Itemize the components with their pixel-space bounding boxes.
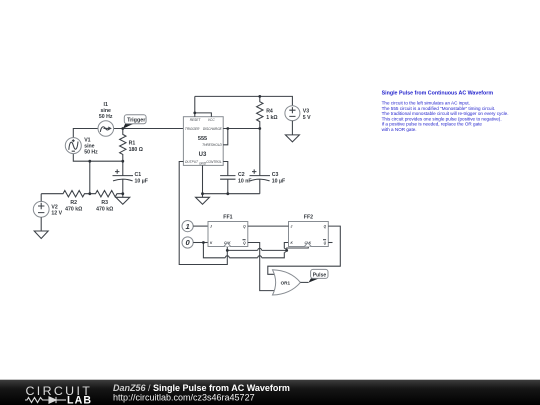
wire FF2 Q to OR input 1 xyxy=(268,226,341,274)
wire CONTROL to C2 xyxy=(223,162,228,176)
note text block xyxy=(382,90,509,132)
node trigger xyxy=(121,127,124,130)
wire K line B to FF2 K xyxy=(203,243,288,258)
svg-text:FF2: FF2 xyxy=(304,215,313,221)
capacitor C3 xyxy=(250,176,271,194)
current source I1 xyxy=(98,121,114,137)
node threshold xyxy=(226,127,229,130)
wire OR output xyxy=(300,281,308,283)
svg-text:555: 555 xyxy=(198,136,207,142)
svg-text:CONTROL: CONTROL xyxy=(206,160,222,164)
svg-text:12 V: 12 V xyxy=(51,211,62,217)
svg-text:470 kΩ: 470 kΩ xyxy=(65,206,82,212)
node CLK FF2 xyxy=(285,249,288,252)
wire V1 top to I1 left xyxy=(73,129,98,138)
svg-text:FF1: FF1 xyxy=(223,215,232,221)
node gnd 555 xyxy=(201,192,204,195)
wire 0 to K xyxy=(193,242,208,244)
ground under C1 xyxy=(116,194,130,205)
svg-text:R4: R4 xyxy=(266,108,273,114)
svg-text:with a NOR gate.: with a NOR gate. xyxy=(382,127,417,132)
wire 1 to J xyxy=(193,225,208,227)
svg-text:1 kΩ: 1 kΩ xyxy=(266,115,277,121)
svg-text:OR1: OR1 xyxy=(281,280,291,285)
ground under 555 xyxy=(196,197,210,204)
svg-text:C1: C1 xyxy=(135,172,142,178)
node C2 bottom xyxy=(226,192,229,195)
svg-text:THRESHOLD: THRESHOLD xyxy=(202,143,222,147)
svg-text:R3: R3 xyxy=(101,200,108,206)
svg-text:The 555 circuit is a modified: The 555 circuit is a modified "Monostabl… xyxy=(382,106,496,111)
svg-text:5 V: 5 V xyxy=(303,115,311,121)
svg-text:1: 1 xyxy=(185,222,189,231)
svg-text:The traditional monostable cir: The traditional monostable circuit will … xyxy=(382,111,509,116)
wire FF1 Qbar to OR input 2 xyxy=(248,243,277,291)
IC U3 555 timer xyxy=(183,117,223,166)
svg-text:DanZ56 / Single Pulse from AC: DanZ56 / Single Pulse from AC Waveform xyxy=(113,383,290,393)
voltage source V2 xyxy=(33,201,49,217)
ground under V3 xyxy=(285,135,299,142)
flip-flop FF1 xyxy=(208,215,248,247)
junction dots xyxy=(88,95,288,252)
svg-text:J: J xyxy=(291,225,293,229)
capacitor C1 xyxy=(113,161,134,194)
svg-text:Pulse: Pulse xyxy=(313,272,327,278)
wire bottom node with R2 R3 xyxy=(41,191,123,197)
svg-text:470 kΩ: 470 kΩ xyxy=(96,206,113,212)
wire FF2 Qbar stub xyxy=(328,242,332,244)
svg-text:The circuit to the left simula: The circuit to the left simulates an AC … xyxy=(382,101,470,106)
svg-text:U3: U3 xyxy=(199,152,207,158)
node K junction xyxy=(202,241,205,244)
svg-text:http://circuitlab.com/cz3s46ra: http://circuitlab.com/cz3s46ra45727 xyxy=(113,392,255,402)
wire V1 bottom node xyxy=(73,154,123,162)
svg-text:V2: V2 xyxy=(51,204,57,210)
node R3 C1 gnd xyxy=(121,192,124,195)
logo CIRCUIT LAB xyxy=(25,384,92,405)
wire FF1 Q to FF2 J xyxy=(248,225,289,227)
svg-text:VCC: VCC xyxy=(208,118,215,122)
svg-text:C2: C2 xyxy=(238,172,245,178)
svg-text:10 µF: 10 µF xyxy=(272,178,285,184)
svg-text:GND: GND xyxy=(199,162,207,166)
voltage source V3 xyxy=(285,106,300,121)
svg-text:50 Hz: 50 Hz xyxy=(84,150,98,156)
voltage source V1 xyxy=(65,138,81,154)
node CLK FF1 xyxy=(226,249,229,252)
svg-text:50 Hz: 50 Hz xyxy=(99,114,113,120)
svg-text:DISCHARGE: DISCHARGE xyxy=(203,127,223,131)
flip-flop FF2 xyxy=(289,215,329,247)
node reset vcc xyxy=(193,112,196,115)
svg-text:180 Ω: 180 Ω xyxy=(129,147,143,153)
svg-text:10 nF: 10 nF xyxy=(238,178,252,184)
wire RESET VCC bracket xyxy=(195,96,212,116)
node discharge R4 xyxy=(258,127,261,130)
svg-text:OUTPUT: OUTPUT xyxy=(185,160,199,164)
wire I1 right to 555 TRIGGER xyxy=(114,128,184,130)
node 0 input xyxy=(182,237,193,248)
ground under V2 xyxy=(34,231,48,239)
resistor R1 xyxy=(120,129,126,162)
svg-text:10 µF: 10 µF xyxy=(135,178,148,184)
wire OUTPUT route to CLK line xyxy=(179,162,227,265)
wire R4 to C3 xyxy=(259,129,261,176)
node V1 bottom xyxy=(88,160,91,163)
svg-text:RESET: RESET xyxy=(190,118,202,122)
node 1 input xyxy=(182,221,193,232)
wire CLK line A to FF2 xyxy=(227,247,308,251)
svg-text:If a positive pulse is needed,: If a positive pulse is needed, replace t… xyxy=(382,122,483,127)
wire top rail xyxy=(195,96,293,105)
capacitor C2 xyxy=(220,176,235,194)
wire THRESHOLD bracket xyxy=(223,129,228,145)
resistor R4 xyxy=(257,96,263,128)
svg-text:TRIGGER: TRIGGER xyxy=(185,127,200,131)
svg-text:Single Pulse from Continuous A: Single Pulse from Continuous AC Waveform xyxy=(382,90,494,96)
node R1 C1 xyxy=(121,160,124,163)
svg-text:This circuit provides one sing: This circuit provides one single pulse (… xyxy=(382,116,502,121)
svg-text:V3: V3 xyxy=(303,108,309,114)
flag Trigger xyxy=(123,124,134,129)
flag Pulse xyxy=(309,278,320,282)
svg-text:LAB: LAB xyxy=(67,394,92,405)
or-gate OR1 xyxy=(273,270,301,295)
svg-text:R1: R1 xyxy=(129,141,136,147)
svg-text:R2: R2 xyxy=(70,200,77,206)
wire mid vertical xyxy=(89,161,91,194)
svg-text:C3: C3 xyxy=(272,172,279,178)
svg-text:Trigger: Trigger xyxy=(127,118,146,124)
svg-text:J: J xyxy=(210,225,212,229)
wire GND pin down and bottom line xyxy=(203,165,260,197)
wire DISCHARGE line xyxy=(223,128,260,130)
node top rail R4 xyxy=(258,95,261,98)
node R2 R3 xyxy=(88,192,91,195)
